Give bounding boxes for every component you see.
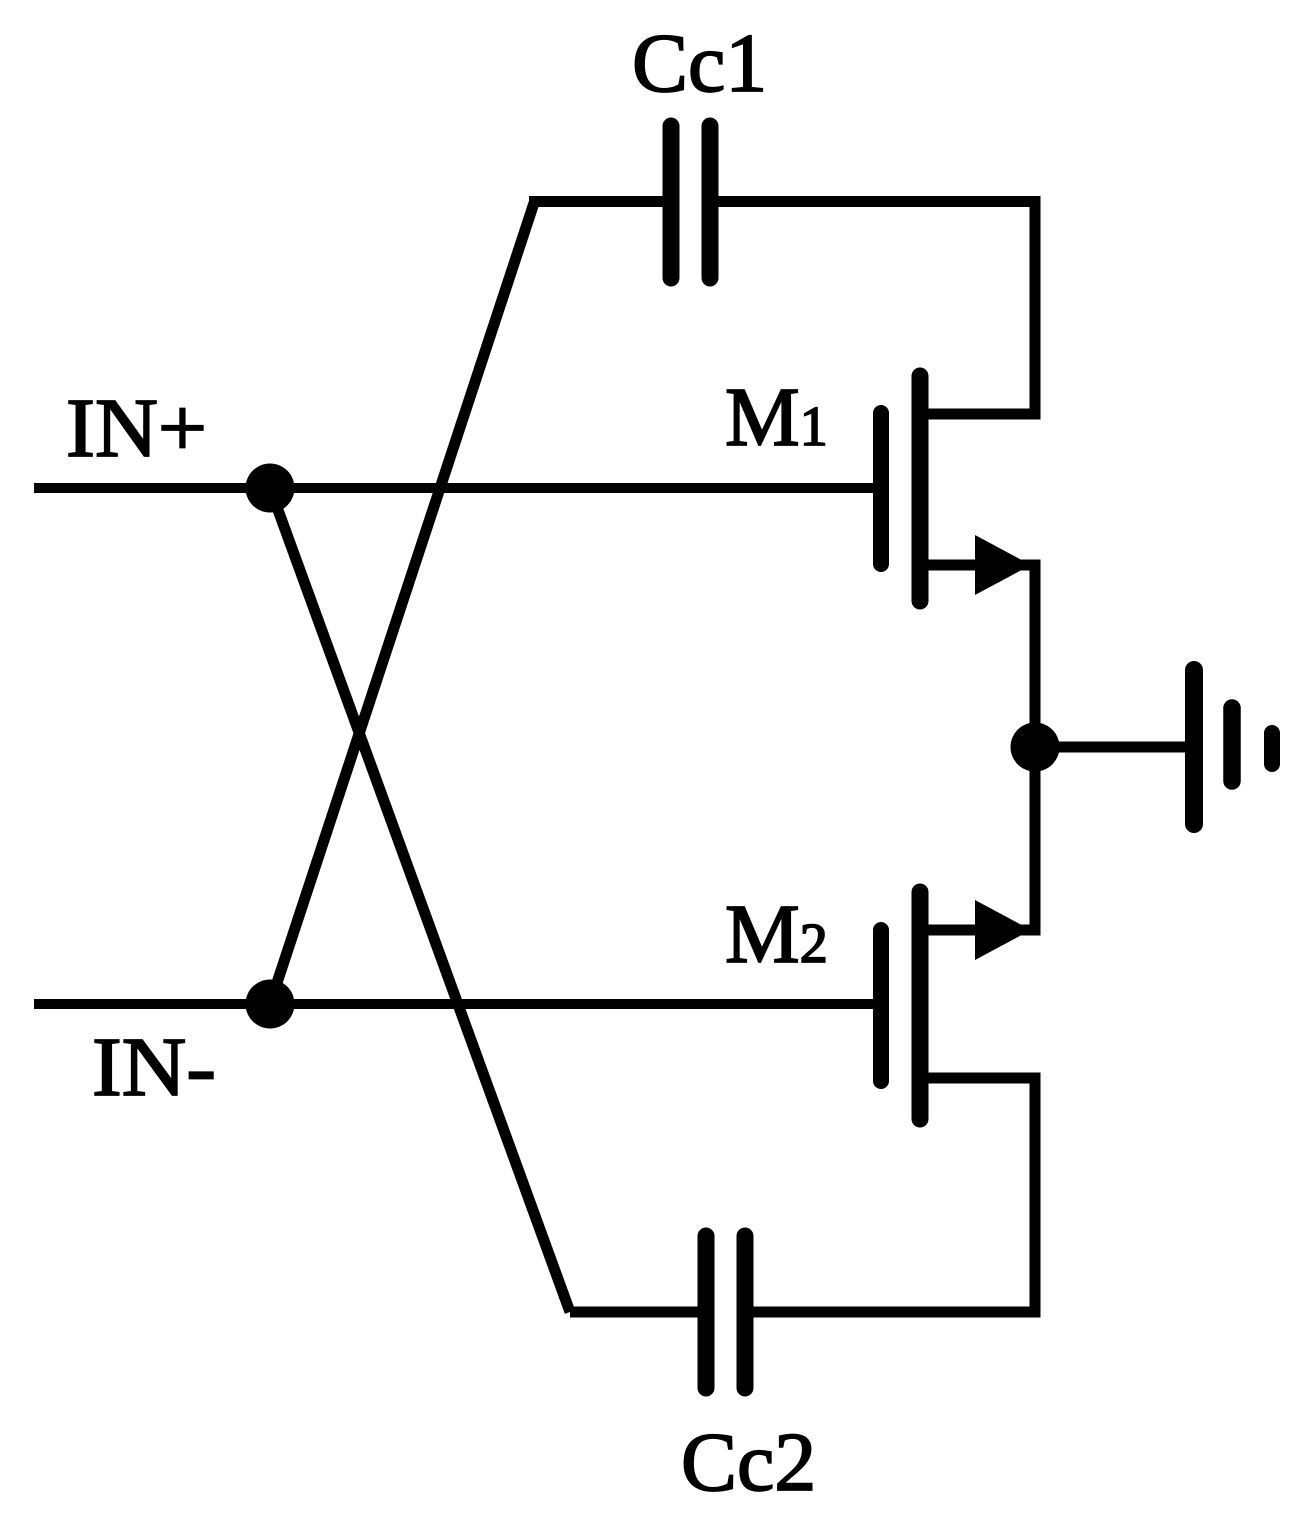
capacitor Cc2 (706, 1236, 745, 1388)
arrow on M2 source (975, 900, 1031, 960)
wire IN+ line (34, 483, 873, 493)
wire cross-couple diagonal from IN+ node to Cc2 left lead (270, 488, 570, 1312)
svg-text:IN+: IN+ (66, 382, 207, 475)
svg-text:Cc2: Cc2 (681, 1416, 816, 1509)
wire output to ground (1035, 742, 1190, 753)
ground (1194, 670, 1272, 824)
node input junction on IN+ (246, 464, 295, 513)
svg-text:M1: M1 (725, 371, 828, 464)
wire Cc1 right lead to M1 drain (716, 202, 1035, 415)
wire M1 source lead (926, 560, 1041, 571)
svg-text:IN-: IN- (92, 1021, 216, 1114)
wire IN- line (34, 999, 873, 1009)
wire Cc1 left lead (529, 196, 665, 207)
node input junction on IN- (246, 980, 295, 1029)
wire output bus (1030, 560, 1041, 936)
svg-text:M2: M2 (725, 888, 828, 981)
wire cross-couple diagonal from IN- node to Cc1 left lead (270, 203, 534, 1004)
capacitor Cc1 (671, 126, 710, 278)
svg-text:Cc1: Cc1 (632, 17, 767, 110)
arrow on M1 source (975, 535, 1031, 595)
node output junction (1011, 723, 1060, 772)
transistor M2 (881, 892, 920, 1119)
transistor M1 (881, 376, 920, 601)
wire Cc2 left lead (570, 1307, 700, 1318)
wire M2 source lead (926, 925, 1041, 936)
wire M2 drain lead to Cc2 right lead (751, 1078, 1035, 1312)
